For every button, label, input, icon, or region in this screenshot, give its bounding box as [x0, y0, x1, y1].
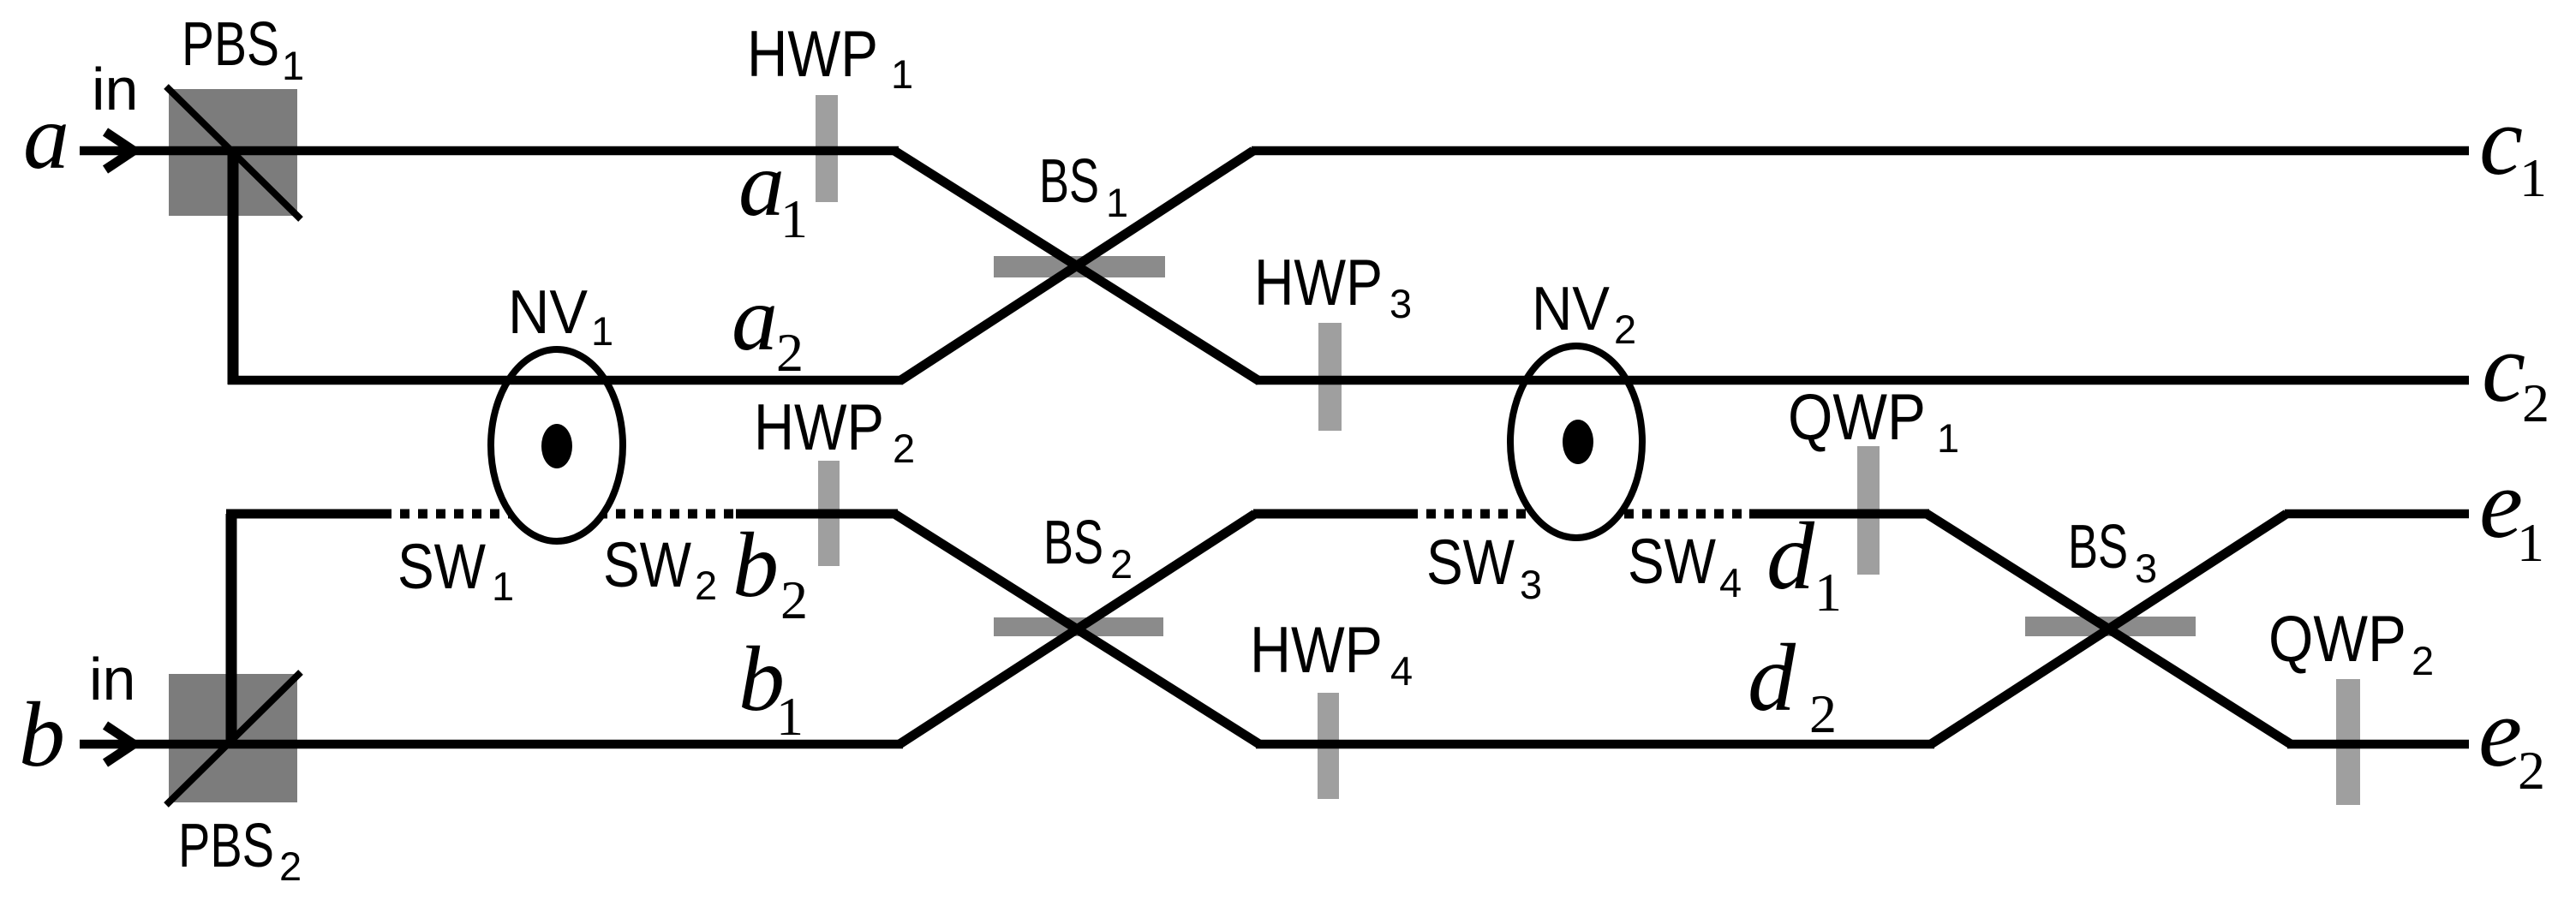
svg-text:SW: SW — [397, 531, 486, 602]
svg-text:2: 2 — [776, 322, 804, 383]
svg-text:1: 1 — [1937, 415, 1959, 461]
svg-text:1: 1 — [2519, 147, 2547, 208]
svg-text:in: in — [89, 646, 135, 712]
svg-text:BS: BS — [1043, 509, 1103, 577]
svg-text:BS: BS — [1039, 147, 1099, 216]
svg-text:c: c — [2482, 313, 2525, 422]
svg-text:1: 1 — [492, 563, 514, 609]
svg-text:b: b — [19, 684, 65, 786]
svg-text:BS: BS — [2068, 513, 2128, 581]
svg-text:in: in — [92, 56, 138, 122]
svg-text:2: 2 — [2518, 740, 2545, 801]
svg-text:NV: NV — [1532, 275, 1610, 343]
svg-text:2: 2 — [1809, 683, 1837, 744]
svg-text:4: 4 — [1390, 648, 1413, 694]
svg-text:2: 2 — [2522, 373, 2549, 433]
svg-text:SW: SW — [603, 529, 691, 600]
svg-text:PBS: PBS — [182, 10, 279, 79]
svg-text:a: a — [732, 268, 778, 370]
svg-text:NV: NV — [508, 278, 588, 347]
svg-text:1: 1 — [1814, 562, 1842, 623]
svg-text:2: 2 — [1614, 307, 1636, 352]
svg-text:d: d — [1766, 504, 1815, 610]
svg-text:4: 4 — [1719, 560, 1742, 605]
svg-text:SW: SW — [1628, 526, 1716, 597]
svg-text:1: 1 — [591, 308, 613, 354]
svg-text:2: 2 — [893, 426, 915, 471]
svg-text:c: c — [2479, 86, 2523, 195]
svg-text:3: 3 — [2135, 545, 2157, 591]
svg-text:a: a — [738, 134, 785, 235]
svg-text:1: 1 — [780, 188, 808, 249]
svg-text:2: 2 — [1110, 541, 1133, 587]
svg-text:1: 1 — [1106, 180, 1128, 225]
svg-text:2: 2 — [279, 843, 302, 889]
svg-text:2: 2 — [780, 569, 808, 630]
svg-text:HWP: HWP — [747, 18, 878, 91]
svg-text:1: 1 — [891, 51, 913, 97]
svg-text:QWP: QWP — [1788, 381, 1926, 454]
svg-text:1: 1 — [282, 43, 304, 88]
svg-text:b: b — [732, 515, 779, 617]
svg-text:HWP: HWP — [1250, 614, 1383, 687]
svg-text:2: 2 — [2412, 638, 2434, 683]
svg-text:HWP: HWP — [754, 391, 884, 464]
svg-text:3: 3 — [1390, 281, 1412, 326]
svg-text:d: d — [1748, 625, 1796, 731]
svg-text:QWP: QWP — [2268, 603, 2406, 676]
svg-text:2: 2 — [695, 563, 717, 608]
svg-text:a: a — [23, 86, 69, 188]
svg-text:PBS: PBS — [178, 812, 274, 880]
svg-text:SW: SW — [1426, 527, 1515, 598]
svg-text:1: 1 — [2517, 512, 2544, 573]
svg-text:3: 3 — [1520, 562, 1542, 607]
svg-text:e: e — [2478, 678, 2522, 787]
svg-text:HWP: HWP — [1254, 247, 1383, 319]
svg-text:1: 1 — [776, 686, 804, 747]
